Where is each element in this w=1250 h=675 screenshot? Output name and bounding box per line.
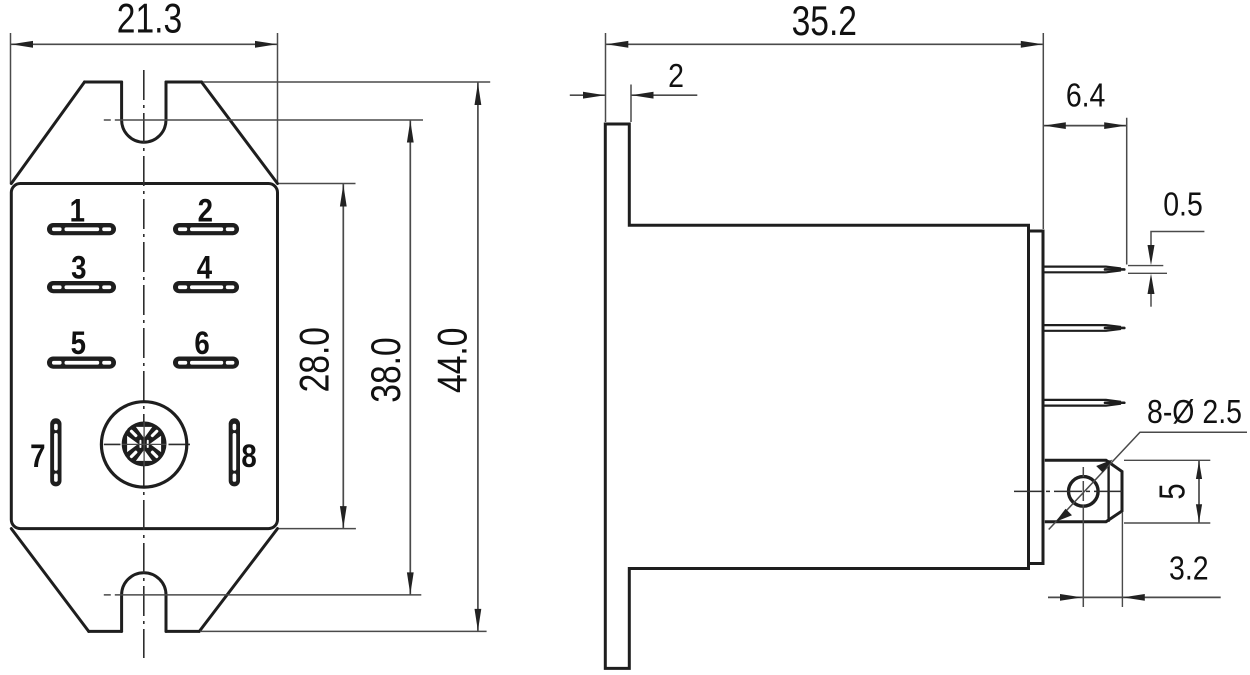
dimension 21.3 arrow right (255, 41, 277, 48)
dimension 21.3 arrow left (11, 41, 33, 48)
boss chamfer face line (1107, 460, 1109, 522)
dimension 5 arrows (1196, 461, 1202, 479)
pin base plate (1029, 231, 1044, 564)
svg-text:21.3: 21.3 (117, 0, 182, 42)
label 8-Ø 2.5 leader (1049, 432, 1247, 529)
vertical centerline of front view (143, 70, 145, 658)
dimension 38.0 arrows (407, 121, 414, 143)
dimension 35.2 extension left (605, 33, 607, 122)
svg-text:6.4: 6.4 (1066, 77, 1106, 115)
crosshair over motif (143, 422, 145, 466)
svg-text:0.5: 0.5 (1163, 185, 1203, 223)
boss hole horizontal centerline (1014, 490, 1124, 492)
bottom right slope (199, 529, 277, 632)
svg-text:2: 2 (198, 193, 213, 229)
dimension 44.0 line (477, 83, 479, 632)
dimension 0.5 pin extension lines (1128, 265, 1163, 267)
dimension 2 extension right (630, 85, 632, 123)
dimension 44.0 arrows (475, 83, 482, 105)
dimension 2 line right with arrow (632, 94, 698, 96)
body main rounded rectangle (11, 184, 277, 529)
svg-text:3: 3 (71, 250, 86, 286)
pin (side) 3 (1045, 400, 1125, 406)
pin slot 8 (vertical) (229, 418, 240, 486)
center actuator: horizontal centerline (104, 443, 121, 445)
dimension 35.2 line (606, 43, 1044, 45)
trapezoid top edge right segment (166, 81, 202, 84)
dimension 35.2 arrow left (606, 41, 628, 48)
svg-text:5: 5 (1152, 483, 1193, 499)
svg-text:35.2: 35.2 (792, 0, 857, 45)
bottom trapezoid with notch (11, 529, 277, 632)
dimension 28.0 line (342, 184, 344, 529)
svg-text:6: 6 (194, 326, 209, 362)
dimension 6.4 line (1043, 125, 1126, 127)
leader arrowhead lower (1056, 509, 1072, 522)
pin (side) 2 (1045, 325, 1125, 331)
pin slot 1 (47, 223, 116, 235)
svg-text:5: 5 (71, 326, 86, 362)
boss hole circle (1069, 477, 1099, 507)
svg-text:3.2: 3.2 (1169, 549, 1209, 587)
dimension 2 line left with arrow (570, 94, 605, 96)
28.0 bottom extension line (279, 528, 356, 530)
svg-text:2: 2 (668, 57, 684, 95)
pin (side) 1 (1045, 267, 1125, 273)
dimension 6.4 extension right (1126, 118, 1128, 265)
svg-text:8-Ø 2.5: 8-Ø 2.5 (1147, 393, 1242, 431)
dimension 6.4 arrows (1044, 122, 1066, 129)
pin slot 6 (173, 357, 239, 369)
dimension 35.2 arrow right (1021, 41, 1043, 48)
trapezoid right slope (202, 82, 278, 184)
center actuator cross-recess motif (122, 422, 167, 467)
bottom left slope (11, 529, 88, 632)
dimension 5 extension lines (1124, 459, 1210, 461)
svg-text:8: 8 (241, 439, 256, 475)
bottom notch arch (122, 573, 166, 632)
dimension 21.3 extension line right (277, 33, 279, 183)
44.0 top extension line (203, 81, 490, 83)
dimension 38.0 line (409, 120, 411, 595)
side view outline (flange + body) (605, 124, 1028, 668)
center actuator outer circle (101, 402, 186, 487)
body outline front view: top trapezoid with notch (11, 82, 277, 184)
boss hole vertical centerline / 3.2 extension (1082, 467, 1084, 607)
dimension 3.2 extension right (1121, 512, 1123, 607)
pin slot 4 (173, 281, 239, 293)
pin slot 5 (47, 357, 116, 369)
svg-text:7: 7 (30, 439, 45, 475)
dimension 35.2 extension right (1042, 33, 1044, 229)
svg-text:1: 1 (70, 193, 85, 229)
dimension 28.0 arrows (340, 185, 347, 207)
dimension 3.2 line with arrows (1048, 596, 1221, 598)
dimension 0.5 leader (1151, 232, 1204, 247)
trapezoid left slope (11, 82, 84, 184)
trapezoid top edge left segment (85, 81, 122, 84)
pin slot 7 (vertical) (50, 418, 61, 486)
pin slot 3 (47, 281, 116, 293)
svg-text:4: 4 (197, 250, 213, 286)
dimension 21.3 extension line left (10, 33, 12, 183)
leader arrowhead upper (1096, 460, 1112, 473)
svg-text:38.0: 38.0 (364, 337, 410, 402)
bottom edge right segment (166, 630, 198, 633)
svg-text:28.0: 28.0 (292, 327, 338, 392)
top notch horizontal centerline / 38.0 extension (104, 119, 423, 121)
mounting boss (1045, 460, 1122, 522)
bottom notch horizontal centerline / 38.0 extension (104, 594, 422, 596)
svg-text:44.0: 44.0 (430, 328, 476, 393)
28.0 top extension line (279, 183, 356, 185)
dimension 21.3 line (11, 43, 278, 45)
bottom edge left segment (89, 630, 122, 633)
dimension 5 line (1198, 461, 1200, 523)
pin slot 2 (173, 223, 239, 235)
top notch U-cutout (122, 82, 166, 142)
44.0 bottom extension line (200, 630, 487, 632)
